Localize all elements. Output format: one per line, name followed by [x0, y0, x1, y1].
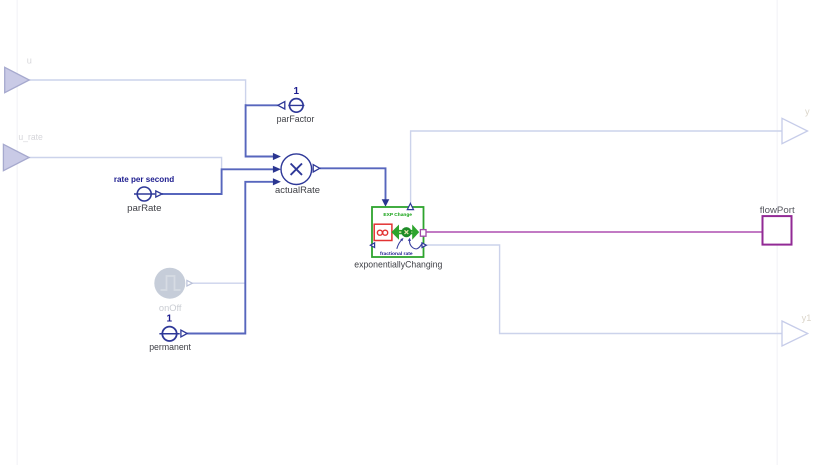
svg-text:fractional rate: fractional rate — [380, 251, 413, 257]
svg-text:flowPort: flowPort — [760, 205, 795, 215]
svg-text:permanent: permanent — [149, 342, 191, 352]
svg-text:u: u — [27, 56, 32, 66]
svg-text:u_rate: u_rate — [18, 132, 43, 142]
svg-text:exponentiallyChanging: exponentiallyChanging — [354, 260, 442, 270]
svg-text:y1: y1 — [802, 313, 812, 323]
svg-text:1: 1 — [294, 86, 300, 97]
svg-text:parRate: parRate — [127, 203, 161, 213]
svg-text:parFactor: parFactor — [277, 114, 315, 124]
svg-text:actualRate: actualRate — [275, 185, 320, 195]
svg-text:rate per second: rate per second — [114, 174, 174, 184]
svg-text:1: 1 — [167, 314, 173, 325]
svg-text:onOff: onOff — [159, 303, 182, 313]
svg-text:EXP Change: EXP Change — [383, 212, 412, 218]
svg-text:y: y — [805, 107, 810, 117]
